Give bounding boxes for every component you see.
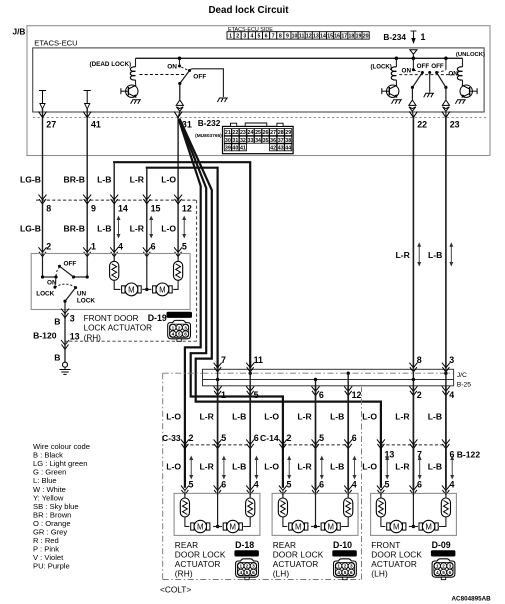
svg-text:M: M: [159, 285, 166, 294]
svg-text:M: M: [425, 522, 432, 531]
ground (lock transistor): [392, 100, 402, 104]
svg-text:4: 4: [172, 332, 175, 337]
svg-text:6: 6: [184, 332, 187, 337]
switch arm to common: [65, 288, 76, 302]
svg-text:L-B: L-B: [97, 175, 111, 185]
svg-text:12: 12: [306, 34, 312, 40]
svg-text:3: 3: [243, 34, 246, 40]
wire stubs inside J/C: [217, 369, 219, 386]
svg-text:L-B: L-B: [97, 224, 111, 234]
pin 27 tick: [39, 112, 47, 118]
svg-text:3: 3: [350, 564, 353, 569]
svg-text:L-O: L-O: [264, 462, 279, 472]
svg-text:36: 36: [270, 138, 276, 144]
svg-text:15: 15: [151, 204, 161, 214]
svg-text:2: 2: [287, 433, 292, 443]
svg-text:6: 6: [352, 433, 357, 443]
connector exit mark (pin 23): [442, 100, 449, 105]
connector mark pin 12: [174, 195, 182, 204]
svg-text:UN: UN: [77, 290, 87, 297]
svg-text:L-B: L-B: [232, 412, 246, 422]
wire 6 down (L-R rear LH): [315, 386, 317, 488]
svg-text:(DEAD LOCK): (DEAD LOCK): [90, 61, 132, 68]
svg-text:D-09: D-09: [432, 540, 451, 550]
actuator box D-10: [272, 493, 358, 535]
svg-text:19: 19: [356, 34, 362, 40]
wire 2 down (L-R front LH): [412, 386, 414, 488]
svg-text:L-B: L-B: [428, 250, 442, 260]
svg-text:L-R: L-R: [395, 250, 410, 260]
motor M2 (front RH): [153, 286, 156, 293]
svg-text:5: 5: [178, 332, 181, 337]
svg-text:10: 10: [292, 34, 298, 40]
svg-text:17: 17: [341, 34, 347, 40]
svg-text:L-O: L-O: [161, 175, 176, 185]
svg-text:4: 4: [337, 570, 340, 575]
svg-text:23: 23: [240, 130, 246, 136]
svg-text:OFF: OFF: [431, 63, 444, 70]
svg-text:B-234: B-234: [383, 32, 406, 42]
svg-text:(LH): (LH): [371, 568, 388, 578]
motor M1 (front RH): [114, 280, 120, 289]
svg-text:6: 6: [254, 433, 259, 443]
svg-text:5: 5: [189, 479, 194, 489]
J/C pin 7 (top): [214, 363, 222, 372]
actuator box D-09: [371, 493, 457, 535]
svg-text:9: 9: [286, 34, 289, 40]
svg-text:29: 29: [285, 130, 291, 136]
svg-text:B-122: B-122: [457, 449, 481, 459]
svg-text:3: 3: [184, 325, 187, 330]
svg-text:AC804895AB: AC804895AB: [452, 596, 492, 603]
svg-text:4: 4: [436, 570, 439, 575]
ground (switch centre): [424, 93, 434, 97]
connector mark pin 15: [143, 195, 151, 204]
J/C pin 8 (top): [409, 363, 417, 372]
motor M2 group 3: [419, 523, 422, 530]
svg-text:5: 5: [182, 242, 187, 252]
svg-text:25: 25: [255, 130, 261, 136]
svg-text:3: 3: [449, 564, 452, 569]
bold bus wire L-R branch: [147, 168, 218, 369]
J/C pin 3 (top): [442, 363, 450, 372]
COLT dash-dot boundary: [163, 372, 203, 374]
wire LG-B (pin 27 down): [42, 118, 44, 253]
svg-text:D-18: D-18: [235, 540, 254, 550]
svg-text:(LH): (LH): [273, 568, 290, 578]
svg-text:(RH): (RH): [175, 568, 193, 578]
junction connector J/C B-25 box: [203, 369, 454, 386]
resistor right group 3: [441, 498, 450, 517]
resistor left group 3: [380, 492, 382, 499]
pin 31 tick: [174, 112, 182, 118]
relay coil (UNLOCK): [462, 58, 464, 67]
svg-text:B-120: B-120: [33, 331, 57, 341]
svg-text:1: 1: [239, 564, 242, 569]
svg-text:4: 4: [450, 479, 455, 489]
resistor right group 2: [344, 498, 353, 517]
J/C pin 4 (bottom): [442, 386, 450, 395]
svg-text:B-232: B-232: [198, 118, 221, 128]
junction node group 1: [217, 492, 219, 527]
svg-text:5: 5: [287, 479, 292, 489]
svg-text:4: 4: [250, 34, 253, 40]
J/C pin 2 (bottom): [409, 386, 417, 395]
motor M1 group 2: [283, 517, 287, 527]
ground (OFF contact): [217, 98, 227, 102]
internal bus wire (ECU top rail): [136, 57, 463, 59]
J/C pin 6 (bottom): [312, 386, 320, 395]
svg-text:L-R: L-R: [199, 462, 214, 472]
svg-text:L-O: L-O: [264, 412, 279, 422]
svg-text:2: 2: [442, 564, 445, 569]
svg-text:FRONT DOOR: FRONT DOOR: [84, 314, 139, 323]
dashed actuation linkage LOCK-UNLOCK: [399, 74, 459, 76]
svg-text:41: 41: [91, 119, 101, 129]
ground (dead lock transistor emitter): [131, 100, 141, 104]
ground G (body): [63, 362, 68, 367]
front door lock actuator RH box: [31, 254, 190, 310]
wires group 2 verticals: [315, 445, 317, 492]
internal ground arrow (pin 27): [39, 90, 46, 92]
svg-text:LOCK: LOCK: [36, 291, 54, 298]
svg-text:(LOCK): (LOCK): [371, 64, 392, 71]
svg-text:C-14: C-14: [260, 433, 279, 443]
svg-text:(UNLOCK): (UNLOCK): [456, 52, 485, 58]
connector mark B-120: [61, 340, 69, 349]
svg-text:LOCK ACTUATOR: LOCK ACTUATOR: [84, 324, 152, 333]
svg-text:L-B: L-B: [330, 412, 344, 422]
svg-text:3: 3: [252, 564, 255, 569]
svg-text:MU802341: MU802341: [333, 551, 356, 556]
wire unlock switch to pin 23: [445, 87, 447, 99]
svg-text:7: 7: [221, 355, 226, 365]
svg-text:23: 23: [450, 119, 460, 129]
svg-text:LOCK: LOCK: [77, 297, 95, 304]
internal ground arrow (pin 41): [84, 90, 91, 92]
svg-text:ON: ON: [167, 63, 177, 70]
svg-text:13: 13: [313, 34, 319, 40]
svg-text:L-R: L-R: [395, 412, 410, 422]
svg-text:15: 15: [327, 34, 333, 40]
svg-text:M: M: [393, 522, 400, 531]
svg-text:41: 41: [240, 145, 246, 151]
svg-text:L-B: L-B: [232, 462, 246, 472]
dashed link upper: [56, 268, 59, 276]
label MU802341 tag: [167, 312, 193, 318]
svg-text:8: 8: [46, 204, 51, 214]
svg-text:OFF: OFF: [193, 73, 206, 80]
svg-text:20: 20: [363, 34, 369, 40]
connector C-33 dashed row: [185, 444, 250, 446]
direction arrow: [183, 219, 185, 235]
J/C pin 1 (bottom): [214, 386, 222, 395]
direction arrow: [150, 219, 152, 235]
pin 23 tick: [442, 112, 450, 118]
ground (unlock transistor): [455, 100, 465, 104]
svg-text:11: 11: [254, 355, 263, 365]
dashed box around front RH actuator (D-19): [196, 200, 198, 341]
svg-text:16: 16: [334, 34, 340, 40]
svg-text:L-O: L-O: [362, 462, 377, 472]
svg-text:5: 5: [221, 433, 226, 443]
svg-text:2: 2: [46, 242, 51, 252]
wire 23 down to J/C: [445, 118, 447, 369]
switch arm OFF contact: [58, 265, 61, 268]
resistor (winding) on L-B: [113, 254, 115, 262]
pin 41 tick: [83, 112, 91, 118]
svg-text:5: 5: [319, 433, 324, 443]
svg-text:ETACS-ECU: ETACS-ECU: [34, 39, 77, 48]
svg-text:21: 21: [225, 130, 231, 136]
switch SW2 (lock side): [402, 58, 459, 92]
dashed actuation link coil-to-switch: [140, 74, 186, 76]
svg-text:L-B: L-B: [330, 462, 344, 472]
svg-text:12: 12: [352, 390, 362, 400]
svg-text:BR-B: BR-B: [64, 175, 85, 185]
svg-text:1: 1: [337, 564, 340, 569]
svg-text:4: 4: [449, 390, 454, 400]
svg-text:1: 1: [421, 32, 426, 42]
connector C-14 dashed row: [283, 444, 348, 446]
svg-text:M: M: [197, 522, 204, 531]
svg-text:2: 2: [178, 325, 181, 330]
svg-text:L-O: L-O: [362, 412, 377, 422]
junction node group 2: [315, 492, 317, 527]
svg-text:6: 6: [449, 570, 452, 575]
connector mark pin 3: [61, 309, 69, 318]
svg-text:18: 18: [349, 34, 355, 40]
svg-text:40: 40: [232, 145, 238, 151]
svg-text:6: 6: [319, 390, 324, 400]
ETACS-ECU box: [33, 48, 484, 112]
svg-text:22: 22: [417, 119, 427, 129]
actuator box D-18: [174, 493, 260, 535]
svg-text:27: 27: [46, 119, 56, 129]
svg-text:M: M: [128, 285, 135, 294]
connector B-122 dashed row: [381, 444, 446, 446]
svg-text:<COLT>: <COLT>: [160, 584, 191, 594]
wire OFF contact to ground: [191, 69, 224, 97]
connector row B-234 (dashed): [33, 117, 488, 119]
resistor left group 1: [184, 492, 186, 499]
svg-text:22: 22: [232, 130, 238, 136]
svg-text:D-10: D-10: [333, 540, 352, 550]
svg-text:6: 6: [252, 570, 255, 575]
wire common down: [64, 301, 66, 309]
svg-text:6: 6: [151, 242, 156, 252]
svg-text:14: 14: [118, 204, 128, 214]
contact LOCK: [55, 277, 56, 287]
connector mark pin 9: [83, 195, 91, 204]
svg-text:D-19: D-19: [148, 313, 167, 323]
svg-text:L-R: L-R: [130, 175, 145, 185]
svg-text:24: 24: [248, 130, 254, 136]
transistor Q (lock driver): [387, 85, 399, 97]
svg-text:4: 4: [118, 242, 123, 252]
svg-text:6: 6: [265, 34, 268, 40]
connector exit mark (pin 31): [176, 100, 183, 105]
wire pin41 stub: [86, 109, 88, 118]
svg-text:34: 34: [255, 138, 261, 144]
svg-text:J/B: J/B: [13, 27, 26, 37]
svg-text:11: 11: [299, 34, 305, 40]
svg-text:1: 1: [221, 390, 226, 400]
svg-text:L-R: L-R: [199, 412, 214, 422]
connector strip ETACS-ECU SIDE (B-234): [227, 27, 369, 40]
svg-text:5: 5: [344, 570, 347, 575]
dashed link lower (lock/unlock arc): [55, 284, 76, 287]
svg-text:MU802341: MU802341: [235, 551, 258, 556]
J/C internal junction dots: [216, 378, 219, 381]
wire 12 down (L-B rear LH): [347, 386, 349, 488]
connector row dashed (D-19 harness): [36, 199, 197, 201]
svg-text:ON: ON: [448, 70, 458, 77]
wire B-234 pin1 to bus: [410, 50, 417, 55]
junction block J/B box: [27, 26, 490, 156]
J/C pin 11 (top): [246, 363, 254, 372]
wire pin27 stub: [42, 109, 44, 118]
svg-text:27: 27: [270, 130, 276, 136]
svg-text:B: B: [54, 353, 60, 363]
svg-text:L-R: L-R: [297, 412, 312, 422]
svg-text:43: 43: [278, 145, 284, 151]
svg-text:4: 4: [254, 479, 259, 489]
svg-text:L-O: L-O: [161, 224, 176, 234]
switch SW1 ON/OFF (dead lock): [167, 57, 206, 100]
svg-text:5: 5: [385, 479, 390, 489]
svg-text:2: 2: [236, 34, 239, 40]
connector icon D-19: [168, 320, 191, 338]
svg-text:44: 44: [285, 145, 291, 151]
connector table B-232: [223, 123, 294, 154]
relay coil (LOCK): [395, 57, 399, 61]
svg-text:38: 38: [285, 138, 291, 144]
wire L-O (pin 31 straight down): [177, 118, 179, 253]
svg-text:OFF: OFF: [417, 63, 430, 70]
wire 1 down (L-R rear RH): [217, 386, 219, 488]
wire B (pin 3): [64, 310, 66, 342]
svg-text:30: 30: [225, 138, 231, 144]
svg-text:2: 2: [344, 564, 347, 569]
resistor left group 2: [282, 492, 284, 499]
svg-text:14: 14: [320, 34, 326, 40]
resistor (winding) on L-O: [173, 280, 178, 289]
svg-text:L-R: L-R: [297, 462, 312, 472]
svg-text:(RH): (RH): [84, 333, 102, 342]
svg-text:2: 2: [246, 564, 249, 569]
J/C pin 5 (bottom): [246, 386, 254, 395]
junction node: [146, 254, 148, 290]
motor M2 group 2: [321, 523, 324, 530]
svg-text:5: 5: [442, 570, 445, 575]
svg-text:L-B: L-B: [428, 462, 442, 472]
svg-text:ON: ON: [402, 67, 412, 74]
svg-text:1: 1: [436, 564, 439, 569]
svg-text:37: 37: [278, 138, 284, 144]
svg-text:M: M: [295, 522, 302, 531]
junction node group 3: [412, 492, 414, 527]
svg-text:LG-B: LG-B: [20, 175, 41, 185]
svg-text:LG-B: LG-B: [20, 224, 41, 234]
svg-text:1: 1: [91, 242, 96, 252]
wire 22 down to J/C: [412, 118, 414, 369]
wires group 1 verticals: [217, 445, 219, 492]
svg-text:42: 42: [270, 145, 276, 151]
svg-text:1: 1: [172, 325, 175, 330]
svg-text:7: 7: [272, 34, 275, 40]
motor M2 group 1: [223, 523, 226, 530]
svg-text:39: 39: [225, 145, 231, 151]
wire 4 down (L-B front LH): [445, 386, 447, 488]
wires group 3 verticals: [412, 445, 414, 492]
svg-text:5: 5: [258, 34, 261, 40]
contact UN LOCK: [74, 286, 77, 289]
svg-text:3: 3: [449, 355, 454, 365]
wire 5 down (L-B rear RH): [249, 386, 251, 488]
direction arrow: [118, 219, 120, 235]
svg-text:MU802341: MU802341: [168, 313, 191, 318]
svg-text:35: 35: [263, 138, 269, 144]
svg-text:L-R: L-R: [395, 462, 410, 472]
svg-text:4: 4: [352, 479, 357, 489]
motor M1 group 3: [381, 517, 385, 527]
J/C pin 12 (bottom): [344, 386, 352, 395]
svg-text:31: 31: [232, 138, 238, 144]
motor M1 group 1: [185, 517, 189, 527]
svg-text:9: 9: [91, 204, 96, 214]
svg-text:13: 13: [385, 449, 395, 459]
svg-text:12: 12: [182, 204, 192, 214]
wire B-234 pin 1 entry arrow: [411, 31, 426, 44]
bold bus wire L-B branch: [114, 162, 250, 369]
wire BR-B (pin 41 down): [86, 118, 88, 253]
svg-text:13: 13: [70, 331, 80, 341]
svg-text:5: 5: [254, 390, 259, 400]
transistor Q (unlock driver): [460, 85, 472, 97]
svg-text:6: 6: [350, 570, 353, 575]
switch rails (lock position switch): [42, 254, 44, 278]
svg-text:8: 8: [279, 34, 282, 40]
svg-text:C-33: C-33: [162, 433, 181, 443]
svg-text:L-O: L-O: [166, 412, 181, 422]
svg-text:(MU803765): (MU803765): [195, 133, 222, 139]
svg-text:B-25: B-25: [457, 382, 472, 389]
connector mark pin 8: [39, 195, 47, 204]
pin 22 tick: [409, 112, 417, 118]
wire B to ground: [64, 341, 66, 362]
svg-text:B: B: [54, 317, 60, 327]
svg-text:J/C: J/C: [457, 372, 467, 379]
svg-text:8: 8: [417, 355, 422, 365]
svg-text:28: 28: [278, 130, 284, 136]
svg-text:26: 26: [263, 130, 269, 136]
svg-text:PU: Purple: PU: Purple: [33, 562, 70, 571]
svg-text:M: M: [327, 522, 334, 531]
svg-text:6: 6: [319, 479, 324, 489]
svg-text:Dead lock Circuit: Dead lock Circuit: [208, 5, 289, 16]
transistor Q (dead lock driver): [126, 85, 138, 97]
svg-text:4: 4: [239, 570, 242, 575]
svg-text:OFF: OFF: [64, 260, 77, 267]
svg-text:L-R: L-R: [130, 224, 145, 234]
svg-text:L-O: L-O: [166, 462, 181, 472]
bold branch wires from pin 31 (fan): [179, 120, 201, 488]
svg-text:6: 6: [221, 479, 226, 489]
svg-text:2: 2: [189, 433, 194, 443]
svg-text:1: 1: [229, 34, 232, 40]
svg-text:2: 2: [417, 390, 422, 400]
